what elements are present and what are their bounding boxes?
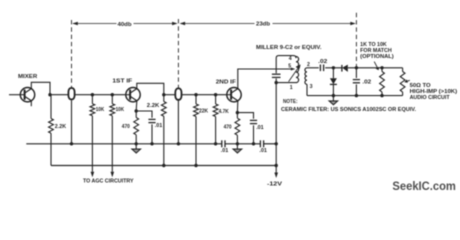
wire: 10K-a top lead (91, 95, 93, 104)
node: 10K-a top junction (91, 93, 94, 96)
wire: output pot right leg (402, 68, 404, 72)
wire: FL1 ground lead (71, 100, 73, 144)
wiper arrow on output pot (404, 79, 410, 82)
wire: 22K bottom lead (195, 117, 197, 166)
wire: Q2 emitter to 470 (135, 111, 137, 118)
ground symbol (1st IF) (132, 144, 141, 153)
arrow: AGC right (111, 172, 115, 178)
wire: Q3 emitter to 470 (236, 113, 238, 119)
wire: ground bus right stub (264, 143, 277, 145)
svg-text:MIXER: MIXER (18, 74, 38, 80)
label pin 2 (307, 62, 310, 68)
wire: detector top rail cap to diode (325, 67, 341, 69)
40db dimension right arrowhead (172, 22, 178, 25)
dashed boundary line at filter FL1 (71, 20, 73, 89)
wire: tuning cap bottom to bottom link (275, 78, 277, 82)
wire: bypass cap bottom lead (151, 124, 153, 144)
wire: 4.7K top lead (215, 95, 217, 104)
wire: Q3 collector up and over to coil tap (238, 69, 293, 89)
potentiometer 1K-10K (380, 72, 385, 93)
resistor 22K (194, 104, 199, 117)
label 40db (118, 22, 132, 28)
svg-text:SeekIC.com: SeekIC.com (392, 180, 456, 193)
node: mixer collector junction (48, 93, 51, 96)
transistor Q3 2ND IF (227, 88, 241, 102)
wire: 40db dimension line right segment (134, 23, 177, 25)
label (OPTIONAL) (360, 54, 394, 60)
svg-text:5: 5 (288, 63, 291, 69)
wire: secondary bottom lead (306, 84, 308, 95)
svg-text:MILLER 9-C2 or EQUIV.: MILLER 9-C2 or EQUIV. (256, 45, 322, 51)
node: transformer cold junction (275, 81, 278, 84)
label -12V (267, 181, 282, 187)
arrow: AGC left (91, 172, 95, 178)
wire: 23db dimension line left segment (181, 23, 255, 25)
diode D1 (shunt) (330, 78, 337, 95)
wire: 470-2 bottom lead (236, 135, 238, 144)
23db dimension right arrowhead (350, 22, 356, 25)
capacitor (transformer tuning) (272, 74, 281, 77)
wire: 2.2K load bottom lead (163, 116, 165, 165)
capacitor .02 (series) (320, 65, 323, 72)
transistor Q1 MIXER (20, 88, 34, 102)
node: cap2 top junction (355, 66, 358, 69)
node: pot R8 bottom junction (380, 94, 383, 97)
label .01 bypass second (256, 125, 264, 131)
svg-text:10K: 10K (96, 107, 105, 113)
label CERAMIC FILTER note (281, 107, 417, 113)
node: 10K-b top junction (111, 93, 114, 96)
wire: Q3 emitter lead (236, 101, 238, 113)
label 22K (199, 109, 208, 115)
label .02 shunt (362, 80, 371, 86)
resistor 470 (1st IF emitter) (134, 118, 139, 135)
wire: Q2 collector up-over-down (137, 83, 164, 94)
wire: supply drop bus A to bus B (275, 144, 277, 166)
svg-text:.01: .01 (221, 148, 229, 154)
arrow: collector tap into coil (291, 68, 296, 71)
node: Q2 collector junction (162, 93, 165, 96)
wire: 22K top lead (195, 95, 197, 104)
capacitor .01 (bus decoupling left) (222, 140, 225, 147)
node: Q2 emitter junction (135, 109, 138, 112)
ground symbol (2nd IF) (233, 144, 242, 153)
svg-text:22K: 22K (199, 109, 208, 115)
node: 470 ground-bus junction (135, 142, 138, 145)
wire: mixer emitter stub (30, 101, 32, 106)
transistor Q2 1ST IF (126, 88, 140, 102)
label pin 4 (289, 56, 292, 62)
resistor 10K (first) (90, 104, 95, 116)
wire: mixer collector up-over-down (31, 82, 50, 94)
wire: .02 shunt top lead (355, 68, 357, 78)
label 10K second (116, 107, 125, 113)
wire: mixer base lead (9, 94, 20, 96)
label 2.2K (55, 124, 66, 130)
capacitor .01 (bus decoupling right) (260, 140, 263, 147)
potentiometer output (volume) (400, 72, 405, 93)
node: -12V bus right junction (275, 164, 278, 167)
wire: 2.2K load top lead (163, 95, 165, 102)
wire: transformer bottom link (276, 82, 296, 84)
svg-text:AUDIO CIRCUIT: AUDIO CIRCUIT (410, 95, 451, 101)
label .01 bus left (221, 148, 229, 154)
slug tuning arrow (289, 64, 301, 81)
svg-text:1: 1 (290, 85, 293, 91)
node: 4.7K top junction (214, 93, 217, 96)
svg-text:.02: .02 (362, 80, 371, 86)
wire: D1 anode lead (332, 68, 334, 79)
node: bypass cap bus junction (150, 142, 153, 145)
arrow: -12V (274, 173, 278, 179)
dashed boundary line at filter FL2 (177, 19, 179, 89)
label 2ND IF (216, 79, 236, 85)
label MILLER 9-C2 or EQUIV. (256, 45, 322, 51)
svg-text:4: 4 (289, 56, 292, 62)
wire: FL2 ground lead (177, 100, 179, 143)
label MIXER (18, 74, 38, 80)
ceramic filter FL2 (175, 88, 181, 99)
ground symbol (detector) (329, 96, 338, 105)
label 23db (256, 22, 270, 28)
svg-text:2.2K: 2.2K (55, 124, 66, 130)
svg-text:(OPTIONAL): (OPTIONAL) (360, 54, 394, 60)
svg-text:470: 470 (224, 125, 232, 131)
svg-text:10K: 10K (116, 107, 125, 113)
svg-text:TO AGC CIRCUITRY: TO AGC CIRCUITRY (83, 179, 134, 185)
svg-text:.01: .01 (259, 148, 267, 154)
wire: top rail to output pot (382, 67, 403, 69)
svg-text:2ND IF: 2ND IF (216, 79, 236, 85)
wire: output pot bottom leg (402, 92, 404, 96)
label 10K first (96, 107, 105, 113)
wire: 2.2K bottom lead to -12V bus corner (50, 133, 52, 165)
label pin 1 (290, 85, 293, 91)
resistor 470 (2nd IF emitter) (235, 118, 240, 135)
wire: 470 bottom lead (135, 135, 137, 144)
capacitor .02 (shunt) (353, 80, 360, 83)
leader arrow to optional pot (374, 62, 379, 71)
svg-text:23db: 23db (256, 22, 270, 28)
wire: signal line FL1 to 1st IF base (75, 94, 126, 96)
capacitor .01 (2nd IF bypass) (250, 120, 257, 123)
node: FL1 ground junction (70, 142, 73, 145)
resistor 2.2K (1st IF load) (161, 102, 166, 117)
svg-text:2.2K: 2.2K (147, 103, 160, 109)
wire: bypass cap 2 bottom lead (253, 125, 255, 144)
diode D2 (series) (342, 65, 348, 72)
label pin 5 (288, 63, 291, 69)
wire: Q2 emitter lead (135, 101, 138, 111)
watermark SeekIC.com (392, 180, 456, 193)
label 2.2K load (147, 103, 160, 109)
wire: 10K-b top lead (111, 95, 113, 104)
wire: detector top rail diode to cap2 (348, 67, 382, 69)
label 1ST IF (112, 79, 132, 85)
wire: signal line Q2 collector to FL2 (164, 94, 176, 96)
svg-text:3: 3 (310, 84, 313, 90)
svg-text:NOTE:: NOTE: (283, 99, 298, 105)
wire: detector bottom rail (307, 95, 403, 97)
svg-text:2: 2 (307, 62, 310, 68)
node: 22K -12V junction (194, 164, 197, 167)
node: bypass cap 2 bus junction (252, 142, 255, 145)
svg-text:40db: 40db (118, 22, 132, 28)
resistor 2.2K (mixer load) (49, 119, 54, 134)
node: shunt diode bottom junction (332, 94, 335, 97)
node: 470-2 ground-bus junction (236, 142, 239, 145)
node: 2.2K load -12V junction (162, 164, 165, 167)
svg-text:-12V: -12V (267, 181, 282, 187)
label FOR MATCH (360, 48, 392, 54)
svg-text:.01: .01 (256, 125, 264, 131)
wire: 40db dimension line left segment (73, 23, 117, 25)
node: 4.7K ground junction (214, 142, 217, 145)
wire: -12V bus (51, 165, 276, 167)
node: FL2 ground junction (177, 142, 180, 145)
label AUDIO CIRCUIT (410, 95, 451, 101)
label NOTE: (283, 99, 298, 105)
wire: ground bus left section (26, 143, 222, 145)
label .01 bus right (259, 148, 267, 154)
label .02 series (318, 59, 327, 65)
inductor primary winding (296, 57, 299, 83)
resistor 10K (second) (110, 104, 115, 116)
wire: signal line FL2 to 2nd IF base (182, 94, 227, 96)
wire: ground bus mid section (225, 143, 260, 145)
node: Q3 emitter junction (236, 111, 239, 114)
node: 22K top junction (194, 93, 197, 96)
label TO AGC CIRCUITRY (83, 179, 134, 185)
capacitor .01 (1st IF bypass) (148, 119, 155, 122)
svg-text:470: 470 (122, 124, 130, 130)
wire: 10K-a lead down to AGC arrow (91, 116, 93, 172)
resistor 4.7K (213, 104, 218, 117)
label 470 second (224, 125, 232, 131)
node: supply node on bus A (275, 142, 278, 145)
label HIGH-IMP (410, 89, 458, 95)
label .01 bypass first (155, 123, 163, 129)
wire: transformer top link (276, 56, 296, 74)
svg-text:1ST IF: 1ST IF (112, 79, 132, 85)
label 50ohm TO (410, 83, 431, 89)
wire: pot R8 top lead (381, 68, 383, 72)
wire: detector top rail secondary to cap (307, 67, 319, 69)
node: pot R8 top junction (380, 66, 383, 69)
wire: transformer cold lead down (275, 83, 277, 144)
svg-text:CERAMIC FILTER: US SONICS A100: CERAMIC FILTER: US SONICS A1002SC OR EQU… (281, 107, 417, 113)
inductor secondary winding (305, 68, 307, 85)
wire: 10K-b lead down to AGC arrow (111, 116, 113, 172)
wire: signal line mixer to FL1 (50, 94, 68, 96)
wire: 23db dimension line right segment (273, 23, 355, 25)
dashed boundary line at detector input (355, 13, 357, 67)
svg-text:4.7K: 4.7K (219, 109, 229, 115)
40db dimension left arrowhead (72, 22, 78, 25)
wire: -12V arrow shaft (275, 166, 277, 173)
wire: 2.2K top lead (50, 95, 52, 119)
svg-text:.01: .01 (155, 123, 163, 129)
node: .02 shunt bottom junction (355, 94, 358, 97)
wire: 4.7K bottom lead (215, 117, 217, 144)
wire: emitter bypass branch 2 (237, 113, 253, 119)
label 4.7K (219, 109, 229, 115)
label 470 first (122, 124, 130, 130)
node: diode D1 top junction (332, 66, 335, 69)
ceramic filter FL1 (68, 88, 74, 99)
23db dimension left arrowhead (180, 22, 186, 25)
label 1K TO 10K (360, 42, 387, 48)
svg-text:.02: .02 (318, 59, 327, 65)
wire: .02 shunt bottom lead (355, 84, 357, 95)
label pin 3 (310, 84, 313, 90)
wire: pot R8 bottom lead (381, 92, 383, 96)
wire: emitter bypass branch (136, 111, 152, 118)
